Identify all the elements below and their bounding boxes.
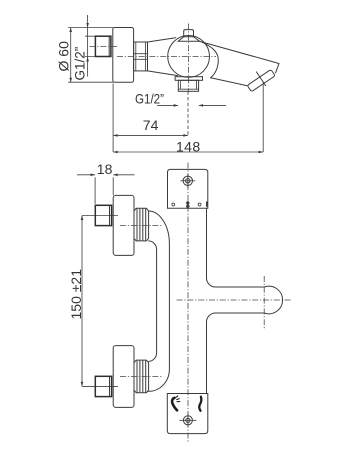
dim G1/2 line [85,15,95,77]
svg-text:150 ±21: 150 ±21 [68,269,84,320]
top screw hole [180,174,195,188]
plate holes [172,203,201,206]
spout bottom edge [211,78,248,86]
bottom union square nut [95,376,111,396]
top union square nut [95,205,111,225]
body column with thermostat pill [207,208,283,393]
knob axis vertical [187,24,189,92]
hot water icon [172,396,180,410]
pill axis horizontal [177,299,291,301]
escutcheon disc (side) [113,28,134,83]
svg-text:74: 74 [143,117,159,133]
main axis [117,55,216,57]
hanger slot [186,201,189,208]
shower outlet pipe G1/2 [178,80,198,91]
dim 150±21 [81,216,118,387]
knob stem [184,30,194,37]
central axis vertical [187,163,189,444]
dim 74 [113,117,188,137]
spout top edge [200,41,279,63]
bottom fitting axis [120,375,162,377]
shower outlet flange [175,77,202,81]
outlet center line dashed [187,91,189,135]
svg-text:18: 18 [97,161,113,177]
spout root arc [203,42,219,78]
knob flange [178,37,199,42]
bottom screw hole [179,414,196,427]
wall union square nut (side) [95,36,111,56]
svg-text:Ø 60: Ø 60 [56,41,72,72]
bottom escutcheon disc [113,346,134,408]
dim 148 [113,138,263,154]
svg-text:G1/2”: G1/2” [135,92,164,107]
cold water icon [199,397,201,411]
18 extension lines [95,177,113,204]
extension line spout tip [262,82,264,152]
spout tip cut [276,64,279,73]
G1/2 outlet arrows [157,104,226,107]
connection nut knurled (side) [134,42,148,71]
top connection nut knurled [134,208,149,241]
edge notch [206,202,208,207]
top mounting plate [168,169,208,208]
bottom mounting plate [167,394,208,434]
extension line wall [112,84,114,153]
top supply elbow inner [149,241,157,362]
body sphere [168,36,210,78]
top fitting axis [120,225,162,227]
body cone [148,38,178,76]
top supply elbow outer [149,211,170,391]
svg-text:G1/2”: G1/2” [73,47,88,81]
bottom connection nut knurled [134,360,149,393]
dim Ø60 line [69,28,72,83]
dim Ø60 extension lines [68,28,113,83]
square nut axis [90,45,119,47]
top escutcheon disc [113,195,134,255]
aerator [247,69,275,91]
dim 18 [77,161,135,177]
svg-text:148: 148 [176,138,201,154]
knob face line vertical [263,276,265,329]
